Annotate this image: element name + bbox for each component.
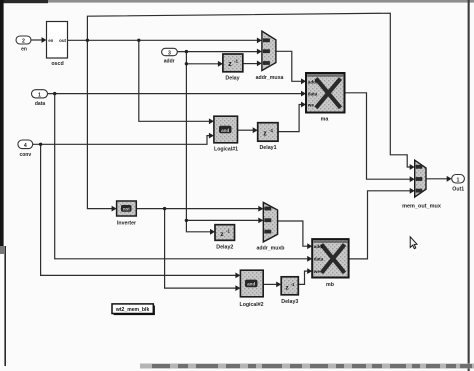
block Logical#2 — [240, 270, 263, 297]
svg-text:addr: addr — [164, 59, 175, 65]
junction addr net — [185, 50, 188, 53]
mux addr_muxa — [262, 31, 276, 70]
wire Delay out to addr_muxa d1 — [243, 63, 258, 65]
svg-text:en: en — [21, 47, 27, 53]
wire oscd net down to Inverter — [87, 40, 112, 208]
svg-text:-1: -1 — [234, 59, 239, 64]
arrowhead Logical2 in1 — [235, 273, 240, 279]
wire Inverter out to addr_muxb sel — [136, 208, 259, 210]
mouse cursor — [410, 237, 417, 249]
svg-text:Logical#1: Logical#1 — [214, 147, 238, 153]
arrowhead addr_muxb d0 — [258, 218, 263, 224]
svg-text:conv: conv — [19, 152, 31, 158]
junction oscd net top — [86, 39, 89, 42]
block Logical#1 — [214, 116, 238, 143]
wire addr branch to Delay — [186, 52, 218, 64]
wire data to ma data — [48, 93, 302, 95]
arrowhead Inverter in — [112, 206, 117, 212]
arrowhead Delay2 in — [210, 229, 215, 235]
wire Logical2 out to Delay3 — [263, 283, 277, 285]
wire addr down to addr_muxb d0 — [186, 64, 259, 221]
svg-text:out: out — [59, 38, 66, 43]
inport 4 — [18, 140, 33, 149]
svg-text:z: z — [228, 61, 232, 68]
arrowhead Delay3 in — [276, 282, 281, 288]
arrowhead mem_out_mux d1 — [410, 188, 415, 194]
arrowhead Out1 — [447, 176, 452, 182]
scan border artifacts (decorative) — [0, 0, 474, 3]
svg-text:addr_muxa: addr_muxa — [256, 75, 284, 81]
svg-text:addr: addr — [308, 79, 318, 84]
arrowhead addr_muxa sel — [257, 38, 262, 44]
svg-text:z: z — [263, 131, 267, 138]
svg-text:addr_muxb: addr_muxb — [257, 246, 285, 252]
arrowhead Delay in — [218, 61, 223, 67]
svg-text:Out1: Out1 — [452, 186, 464, 192]
wire top loop to mem_out_mux sel — [87, 13, 410, 167]
svg-text:3: 3 — [168, 50, 171, 56]
svg-text:oscd: oscd — [51, 61, 63, 67]
block Delay3 — [281, 277, 298, 295]
arrowhead addr_muxa d0 — [257, 49, 262, 55]
svg-text:mb: mb — [326, 282, 335, 288]
svg-text:we: we — [307, 103, 315, 108]
svg-text:Delay3: Delay3 — [281, 299, 298, 305]
arrowhead addr_muxa d1 — [257, 61, 262, 67]
wire mb out to mem_out_mux d1 — [349, 191, 411, 259]
svg-text:-1: -1 — [291, 282, 295, 287]
svg-text:-1: -1 — [226, 229, 230, 234]
svg-text:and: and — [221, 128, 229, 133]
arrowhead Delay1 in — [253, 127, 258, 133]
svg-text:mem_out_mux: mem_out_mux — [402, 203, 442, 209]
wire conv down to Logical2 in1 — [41, 144, 236, 275]
inport 2 — [16, 36, 31, 45]
arrowhead mb addr — [307, 243, 312, 249]
svg-text:data: data — [35, 101, 46, 107]
mux mem_out_mux — [415, 160, 426, 197]
arrowhead oscd en — [42, 37, 47, 43]
svg-text:ma: ma — [321, 116, 329, 122]
svg-text:Logical#2: Logical#2 — [240, 302, 264, 308]
inport 1 — [32, 90, 48, 99]
arrowhead Logical2 in2 — [235, 285, 240, 291]
RAM mb — [312, 239, 348, 277]
wire addr branch to Delay2 — [186, 220, 210, 231]
svg-text:en: en — [48, 38, 53, 43]
svg-text:2: 2 — [22, 39, 25, 45]
arrowhead addr_muxb sel — [258, 206, 263, 212]
wire addr to addr_muxa d0 — [177, 51, 257, 53]
block Delay — [223, 54, 243, 72]
wire oscd net down to Logical1 in1 — [139, 40, 210, 121]
wire addr_muxa out to ma addr — [276, 51, 302, 81]
svg-text:1: 1 — [38, 93, 41, 99]
wire addr_muxb out to mb addr — [278, 221, 308, 246]
svg-text:-1: -1 — [269, 128, 274, 133]
arrowhead ma we — [301, 102, 306, 108]
svg-text:Delay: Delay — [225, 76, 239, 82]
wire Delay3 out to mb we — [298, 271, 308, 284]
svg-text:data: data — [314, 257, 324, 262]
svg-text:Delay1: Delay1 — [259, 145, 276, 151]
block oscd — [47, 22, 68, 59]
svg-text:4: 4 — [24, 143, 27, 149]
wire en: port2 to oscd — [31, 39, 42, 41]
arrowhead Logical1 in2 — [209, 133, 214, 139]
arrowhead mem_out_mux d0 — [410, 176, 415, 182]
svg-text:wt2_mem_blk: wt2_mem_blk — [115, 307, 150, 313]
arrowhead ma addr — [301, 78, 306, 84]
block Delay2 — [215, 225, 235, 241]
arrowhead mb we — [307, 268, 312, 274]
block Delay1 — [258, 123, 278, 142]
arrowhead mem_out_mux sel — [410, 164, 415, 170]
svg-text:Inverter: Inverter — [117, 220, 136, 226]
svg-text:addr: addr — [314, 244, 324, 249]
wire Delay1 out to ma we — [278, 105, 302, 132]
svg-text:not: not — [123, 207, 130, 212]
block Inverter — [117, 201, 137, 216]
wire data down to mb data — [55, 94, 308, 259]
junction conv net — [39, 143, 42, 146]
svg-text:1: 1 — [457, 178, 460, 184]
junction inverter net — [163, 207, 166, 210]
wire Inverter net down to Logical2 in2 — [165, 209, 236, 289]
RAM ma — [306, 73, 345, 113]
inport 3 — [162, 48, 178, 56]
arrowhead Logical1 in1 — [209, 118, 214, 124]
wire Logical1 out to Delay1 — [238, 129, 254, 131]
wire oscd out to addr_muxa sel — [68, 39, 258, 41]
junction addr delay — [185, 62, 188, 65]
arrowhead ma data — [301, 91, 306, 97]
outport Out1 — [452, 175, 465, 184]
annotation wt2_mem_blk — [112, 304, 155, 315]
svg-text:we: we — [313, 269, 321, 274]
wire ma out to mem_out_mux d0 — [345, 93, 411, 179]
mux addr_muxb — [263, 202, 277, 242]
junction addr muxb — [185, 219, 188, 222]
junction oscd net logical1 — [137, 39, 140, 42]
arrowhead mb data — [307, 256, 312, 262]
wire mem_out_mux out to Out1 — [426, 178, 447, 180]
svg-text:and: and — [247, 282, 255, 287]
wire conv to Logical1 in2 — [33, 136, 210, 145]
svg-text:Delay2: Delay2 — [216, 245, 233, 251]
junction data net — [53, 92, 56, 95]
svg-text:data: data — [308, 92, 318, 97]
